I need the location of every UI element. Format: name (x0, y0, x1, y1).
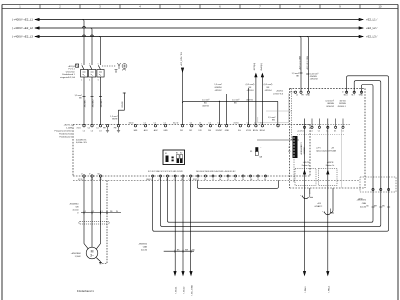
svg-text:-RxD(L): -RxD(L) (261, 63, 263, 71)
svg-text:+E2_L3 /: +E2_L3 / (366, 35, 377, 39)
svg-text:Knoten 1x: Knoten 1x (302, 164, 311, 167)
svg-text:X5 D: X5 D (290, 92, 295, 94)
svg-text:1: 1 (85, 211, 86, 213)
CP1 pin group labels (288, 147, 291, 153)
svg-text:S2: S2 (180, 153, 182, 155)
connector strip on CP1 (black) (293, 136, 307, 158)
wire ticks Q4 to T1.1 with cable label (74, 94, 102, 100)
svg-text:SL7: SL7 (351, 95, 354, 97)
svg-text:+E2/T1.1: +E2/T1.1 (64, 124, 73, 126)
wire label near corner 277.8 (268, 116, 276, 122)
svg-text:B1: B1 (176, 153, 178, 155)
svg-text:S1: S1 (165, 153, 167, 155)
control wire bus at y=101 (183, 98, 278, 124)
Q4 trip release symbol (118, 63, 121, 69)
motor PE (96, 258, 102, 264)
svg-text:3: 3 (102, 211, 103, 213)
svg-text:5: 5 (98, 63, 99, 65)
wire Q4/2 to T1.1 L2 (91, 97, 93, 125)
svg-text:+M: +M (331, 148, 334, 150)
T1.1 top terminal group 4 (comms) (234, 123, 280, 133)
PE dashed wire (102, 181, 107, 264)
svg-text:( +400V/ +E2_L1: ( +400V/ +E2_L1 (12, 18, 34, 22)
svg-text:(0,5 mm²): (0,5 mm²) (246, 83, 255, 86)
Q4 PLC address box (76, 64, 79, 67)
PE wire green/yellow into T1.1 (110, 93, 126, 125)
svg-text:Optionskarte CP2CAN: Optionskarte CP2CAN (316, 150, 337, 153)
svg-text:VO24: VO24 (246, 130, 251, 132)
wire PN node 1 (304, 119, 306, 172)
terminal strip X10 (81, 212, 121, 214)
svg-text:GND: GND (163, 130, 168, 132)
wrap wire 3 from T1.1 bottom to U1 (outer) (153, 76, 389, 231)
svg-text:LOGO! 8.3: LOGO! 8.3 (273, 94, 284, 96)
svg-text:D1: D1 (334, 130, 336, 132)
svg-text:+E3-PN: +E3-PN (303, 162, 310, 164)
shield drain wire node2 (331, 188, 334, 213)
svg-text:µC1/C1: µC1/C1 (298, 130, 304, 132)
wires from above into comms terminals (214, 83, 272, 125)
svg-text:-W1/BK1: -W1/BK1 (84, 99, 86, 108)
svg-text:3/0 GU: 3/0 GU (339, 101, 346, 103)
svg-text:B5G4: B5G4 (260, 130, 265, 132)
svg-text:D40 D4G2 D403 GND D404 D405 +D: D40 D4G2 D403 GND D404 D405 +D406 NO NC (196, 171, 236, 173)
svg-text:1,1kW: 1,1kW (75, 256, 81, 258)
svg-text:C1: C1 (310, 130, 312, 132)
svg-text:100 D: 100 D (129, 123, 135, 125)
svg-text:DR/WH: DR/WH (339, 103, 346, 105)
svg-text:S1: S1 (250, 151, 252, 153)
svg-text:DI1: DI1 (180, 130, 183, 132)
wire L1 drop to Q4 (83, 20, 86, 64)
svg-text:GND: GND (359, 95, 364, 97)
shield hook 2 (323, 209, 335, 215)
wire L3 drop to Q4 (99, 37, 101, 64)
svg-text:+E2_L2/ 1,5/BU: +E2_L2/ 1,5/BU (307, 55, 309, 70)
svg-text:4x0,34: 4x0,34 (141, 250, 148, 252)
U1 top terminals power (290, 91, 311, 97)
PN node 1 dashed enclosure (295, 168, 316, 185)
svg-text:+E2_L1 /: +E2_L1 / (366, 18, 377, 22)
svg-text:1,5 mm²: 1,5 mm² (214, 83, 222, 86)
net L3 +400V (12, 35, 378, 39)
svg-text:B1.0: B1.0 (344, 95, 348, 97)
wrap wire 1 from T1.1 bottom to U1 (inner) (168, 85, 374, 223)
wire designation labels between Q4 and T1.1 (84, 99, 103, 108)
svg-text:+E2_L1/ 1,5/BK: +E2_L1/ 1,5/BK (299, 55, 301, 70)
Q4 pole 2 contact (91, 64, 93, 66)
svg-text:Förderband 1: Förderband 1 (62, 73, 75, 76)
motor wires U V W down (84, 177, 88, 249)
svg-text:-W1/BK2: -W1/BK2 (92, 99, 94, 108)
cable shield ellipse (78, 222, 110, 225)
svg-text:Knoten 2x: Knoten 2x (326, 164, 335, 167)
svg-text:W: W (98, 174, 100, 176)
net L2 +400V (12, 26, 378, 30)
svg-text:SC1 SC2 GND SC1 SC2 SC2 GND DC: SC1 SC2 GND SC1 SC2 SC2 GND DC24V (148, 171, 184, 173)
svg-text:DI4: DI4 (208, 130, 211, 132)
svg-text:X12 D: X12 D (173, 123, 179, 125)
wire from U1 mid terminal down (gray) (341, 128, 343, 188)
svg-text:0,34 mm²: 0,34 mm² (326, 100, 335, 103)
svg-text:eingestellt 2,5 A: eingestellt 2,5 A (60, 76, 75, 79)
svg-text:0,00kW 0%: 0,00kW 0% (76, 140, 86, 142)
wire L2 drop to Q4 (91, 28, 94, 64)
svg-text:/ -PA+1: / -PA+1 (328, 285, 331, 293)
cable designation block (69, 204, 79, 215)
DIP switch S1 block (163, 150, 185, 165)
net L1 +400V (12, 18, 378, 22)
svg-text:X17 D: X17 D (234, 123, 240, 125)
svg-text:DI3: DI3 (199, 130, 202, 132)
svg-text:-W2/G1: -W2/G1 (246, 99, 254, 101)
svg-text:L1: L1 (296, 95, 298, 97)
option card CP1 dashed partition (292, 88, 337, 183)
svg-text:+E2_L2 /: +E2_L2 / (366, 26, 377, 30)
svg-text:/ -SC_GND: / -SC_GND (192, 285, 194, 296)
svg-text:3: 3 (89, 63, 90, 65)
svg-text:-W2/G2: -W2/G2 (215, 90, 223, 92)
CAN cable marker right with labels (357, 200, 390, 209)
mounting plate dashed boundary (73, 179, 360, 181)
svg-text:DI5/DIT: DI5/DIT (216, 130, 223, 132)
svg-text:CAN: CAN (143, 246, 148, 249)
relay wiring rectangle (197, 180, 278, 188)
svg-text:+E2_24V / D1: +E2_24V / D1 (181, 52, 183, 66)
motor 3M4 (71, 247, 102, 264)
svg-text:-U5/APC: -U5/APC (314, 205, 323, 208)
svg-text:-W2/G4: -W2/G4 (265, 90, 273, 92)
svg-text:C1: C1 (199, 123, 201, 125)
wrap wire 2 from T1.1 bottom to U1 (middle) (161, 81, 381, 227)
svg-text:/ -SC22: / -SC22 (184, 286, 186, 294)
svg-text:1: 1 (81, 63, 82, 65)
svg-text:C1: C1 (154, 123, 156, 125)
svg-text:3~: 3~ (90, 253, 94, 257)
wire Q4/3 to T1.1 L3 (100, 97, 102, 125)
auxiliary supply wires to U1 (gray) (257, 93, 299, 140)
svg-text:/ -SC21: / -SC21 (176, 286, 178, 294)
Q4 pole 1 contact (83, 64, 85, 66)
svg-text:( +400V/ +E2_L2: ( +400V/ +E2_L2 (12, 26, 34, 30)
wire designation labels (rotated) for U1 feed wires (299, 55, 308, 70)
svg-text:C1: C1 (318, 130, 320, 132)
svg-text:-W10/G2: -W10/G2 (310, 79, 319, 81)
wire L3 drop to U1 node a (300, 37, 302, 92)
svg-text:GNYE: GNYE (122, 101, 124, 108)
Q4 label block (60, 66, 76, 79)
T1.1 top terminal group 3 (digital inputs) (173, 123, 230, 133)
svg-text:0,00Hz / 0%: 0,00Hz / 0% (76, 142, 87, 144)
device APC label (314, 203, 323, 208)
PN node 2 dashed enclosure (319, 168, 338, 185)
svg-text:FU 1.1: FU 1.1 (69, 69, 76, 71)
T1.1 PE terminals with ground symbols (103, 125, 120, 133)
svg-text:C1: C1 (164, 123, 166, 125)
CAN cable marker bottom (138, 244, 195, 253)
T1.1 bottom terminal group control (146, 171, 192, 181)
svg-text:-W2/G3: -W2/G3 (247, 90, 255, 92)
CAN wires to bottom arrows (174, 177, 194, 296)
svg-text:(0,5 mm²): (0,5 mm²) (264, 83, 273, 86)
svg-text:AG1: AG1 (144, 129, 148, 132)
wire Q4/1 to T1.1 L1 (83, 97, 85, 125)
frequency converter T1.1 box (dashed) (55, 124, 310, 176)
T1.1 top terminals L1 L2 L3 (77, 125, 103, 133)
U1 top terminals network (326, 91, 364, 108)
svg-text:C1: C1 (209, 123, 211, 125)
svg-text:Frequenzumrichter: Frequenzumrichter (55, 130, 73, 133)
profinet node labels and arrows (302, 119, 335, 294)
Q4 trip linkage (dashed) (102, 65, 116, 67)
svg-text:C1: C1 (190, 123, 192, 125)
svg-text:-W1/BK3: -W1/BK3 (101, 99, 103, 108)
svg-text:1,5 mm²: 1,5 mm² (232, 98, 240, 101)
svg-text:B1: B1 (288, 151, 290, 153)
svg-text:GN/WH: GN/WH (327, 103, 334, 105)
wire from interrupt arrow down to DI1 with branch (181, 52, 184, 125)
svg-text:6: 6 (98, 79, 99, 81)
svg-text:-SC2(H): -SC2(H) (254, 63, 256, 71)
circuit breaker Q4 (60, 63, 127, 97)
interrupt arrows up for SC wires (254, 63, 263, 125)
svg-text:2: 2 (81, 79, 82, 81)
svg-text:-W10/G.1: -W10/G.1 (337, 106, 346, 108)
svg-text:HB1: HB1 (134, 130, 138, 132)
svg-text:-W10/M10: -W10/M10 (69, 204, 79, 206)
svg-text:GND: GND (225, 130, 230, 132)
T1.1 bottom terminal group relay (193, 171, 267, 181)
svg-text:B5CH: B5CH (253, 130, 259, 132)
svg-text:( +400V/ +E2_L3: ( +400V/ +E2_L3 (12, 35, 34, 39)
svg-text:-W5/MG2: -W5/MG2 (138, 244, 147, 246)
svg-text:2: 2 (93, 211, 94, 213)
cable exit dashed box (360, 177, 396, 192)
motor cable section (69, 177, 121, 263)
shield drain wire node1 (309, 188, 311, 194)
Q4 pole 3 contact (100, 64, 102, 66)
wire PN node 2 (327, 119, 329, 172)
svg-text:+E2/U1: +E2/U1 (276, 91, 284, 93)
U1 mid terminal row (297, 119, 351, 135)
svg-text:AG2: AG2 (154, 129, 158, 132)
T1.1 bottom terminals motor side U V W (78, 174, 103, 181)
svg-text:4: 4 (89, 79, 90, 81)
svg-text:GNYE: GNYE (112, 119, 118, 121)
svg-text:C1: C1 (144, 123, 146, 125)
svg-text:1,5 mm²: 1,5 mm² (268, 116, 276, 119)
svg-text:/ -PA-1: / -PA-1 (304, 286, 307, 293)
svg-text:1,1kW: 1,1kW (66, 127, 72, 129)
PLC module U1 box (dashed) (273, 88, 365, 188)
T1.1 top terminal group 2 (analog) (129, 123, 169, 133)
Q4 thermal boxes (81, 70, 88, 78)
wire ticks + size labels on U1 feed wires (292, 72, 319, 81)
svg-text:DI2: DI2 (189, 130, 192, 132)
svg-text:1,5 mm²: 1,5 mm² (202, 98, 210, 101)
svg-text:Förderband 1: Förderband 1 (60, 136, 73, 139)
svg-text:W: W (116, 211, 118, 213)
svg-text:+E2/Q4: +E2/Q4 (68, 66, 76, 68)
svg-text:+M10/3M4: +M10/3M4 (71, 253, 82, 255)
svg-text:Förderband 1: Förderband 1 (77, 289, 94, 293)
wire L3 drop to U1 node b (307, 37, 309, 92)
svg-text:A1B1A2B2C1: A1B1A2B2C1 (300, 141, 303, 154)
shield hook 1 (301, 193, 314, 199)
selector switch UA (250, 147, 263, 158)
svg-text:-W10/G2: -W10/G2 (326, 106, 335, 108)
svg-text:4x1,50: 4x1,50 (72, 210, 79, 212)
svg-text:-W2/G2: -W2/G2 (202, 106, 210, 108)
svg-text:Umrichter: Umrichter (66, 70, 75, 73)
Q4 pole exits (83, 77, 85, 97)
terminal circles in cable exit box (372, 188, 374, 190)
svg-text:Fördertechnik: Fördertechnik (59, 133, 73, 136)
svg-text:GND: GND (306, 95, 311, 97)
svg-text:GN/WH: GN/WH (215, 87, 222, 89)
